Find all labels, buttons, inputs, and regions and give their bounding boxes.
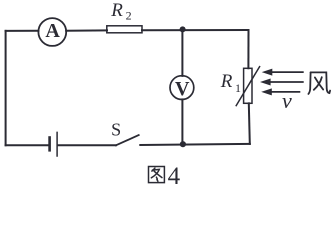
svg-text:R: R [220,71,233,92]
wire bottom left segment [6,144,49,146]
battery short plate [48,138,51,151]
wind arrow 1 [262,69,304,76]
wind arrow 3 [261,88,300,95]
diagonal slash of sensor R1 [236,67,259,106]
svg-text:V: V [175,78,190,100]
wire bottom right segment [140,144,250,145]
wire right vertical lower [249,103,250,144]
junction node top [180,26,186,32]
wire top left segment [6,30,39,32]
wind arrow 2 [260,79,304,86]
wire right vertical upper [247,30,249,68]
wire R2 to top-right corner [142,29,249,31]
voltmeter V circle [170,76,194,100]
switch S lever (open) [116,135,139,145]
wire battery to switch [58,144,116,146]
svg-text:A: A [45,20,60,42]
svg-text:R: R [110,0,123,21]
junction node bottom [180,141,186,147]
ammeter A circle [38,18,66,46]
character TU (figure) hand-drawn [149,167,165,183]
wire left vertical [5,31,7,145]
wire ammeter to R2 [66,29,107,31]
svg-text:2: 2 [126,8,132,22]
battery long plate [56,132,58,156]
voltmeter branch wire upper [181,30,183,76]
svg-text:1: 1 [235,81,241,95]
resistor R2 body [107,26,142,33]
voltmeter branch wire lower [181,99,183,144]
character FENG (wind) hand-drawn [308,72,330,94]
svg-text:S: S [111,120,121,140]
resistor R1 body (wind sensor) [244,68,252,103]
svg-text:4: 4 [168,163,181,188]
